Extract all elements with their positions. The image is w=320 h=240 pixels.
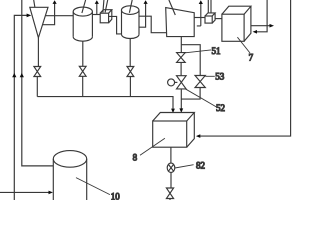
wire valve V1 to manifold — [36, 77, 38, 97]
tank 10 (large cylinder) — [53, 159, 86, 200]
wire tank T1 bottom pipe — [82, 41, 84, 67]
wire leader line on tank T1 top — [82, 0, 86, 13]
wire manifold to reactor 8 with down arrow — [37, 97, 173, 110]
svg-text:10: 10 — [111, 191, 121, 200]
wire valve 51 to valve 52 — [180, 62, 182, 75]
svg-text:82: 82 — [196, 161, 205, 171]
wire leader for label 7 — [237, 37, 250, 53]
tank T2 (cylinder) — [122, 10, 140, 34]
small box B2 (pump before condenser 7) — [205, 16, 212, 23]
arrowhead up on line A — [12, 73, 16, 77]
wire tank T1 outlet right — [92, 14, 100, 16]
reactor 8 (3D box) — [153, 121, 187, 147]
wire leader for label 52 — [185, 89, 217, 107]
wire valve 52 down to reactor 8 with down arrow — [180, 89, 182, 109]
wire tank T2 vent with up arrow — [139, 3, 145, 27]
wire twin vertical pipes into box B2 — [208, 0, 211, 14]
wire valve 53 down and left into valve-52 pipe — [181, 88, 200, 100]
wire right-side line into reactor 8 with left arrow — [200, 0, 291, 136]
wire separator vent with up arrow — [197, 3, 201, 26]
wire cyclone outlet to tank T1 — [46, 15, 74, 17]
arrowhead up on line B — [20, 73, 24, 77]
wire return line into condenser 7 with left arrow — [257, 0, 268, 32]
wire separator right outlet to box B2 — [194, 17, 205, 19]
tank T1 (cylinder) — [73, 12, 92, 37]
wire leader for label 53 — [205, 75, 215, 77]
wire condenser 7 outlet with right arrow — [251, 25, 270, 27]
actuator circle of valve 52 — [168, 79, 175, 86]
wire box B2 to condenser 7 — [215, 18, 222, 20]
valve 51 — [177, 53, 186, 63]
bottom drain valve — [166, 188, 173, 199]
wire reactor 8 bottom pipe — [170, 147, 172, 163]
svg-text:51: 51 — [212, 46, 221, 56]
wire separator bottom pipe — [180, 37, 182, 53]
wire valve V3 to manifold — [129, 77, 131, 97]
wire leader for label 51 — [185, 50, 211, 53]
wire tank T2 right outlet step pipe to separator — [139, 16, 166, 33]
valve V3 — [127, 67, 134, 77]
wire feed line B (left vertical to tank 10) — [22, 0, 54, 166]
pump 82 (circle with X) — [167, 163, 175, 172]
wire leader line into separator top — [169, 0, 175, 15]
arrowhead into cyclone inlet — [27, 14, 32, 18]
wire circle to valve 52 — [175, 81, 178, 83]
svg-text:8: 8 — [133, 152, 138, 162]
wire pump 82 to bottom valve — [170, 173, 172, 188]
small box B1 (pump between tanks) — [100, 13, 108, 23]
cyclone funnel (inverted triangle) — [30, 7, 48, 38]
wire leader for label 10 — [76, 178, 110, 195]
valve V1 — [34, 67, 41, 77]
wire leader for label 8 — [140, 138, 165, 155]
wire cyclone vent with up arrow — [42, 3, 54, 24]
svg-text:53: 53 — [215, 72, 225, 82]
wire twin slanted pipes into box B1 top — [103, 0, 108, 12]
svg-text:52: 52 — [216, 103, 225, 113]
wire tank T2 bottom pipe — [129, 38, 131, 66]
wire inlet line into cyclone top — [34, 0, 35, 7]
wire feed line A (left vertical with bend to cyclone inlet) — [14, 15, 27, 200]
valve 53 — [195, 76, 205, 88]
separator vessel (trapezoid) — [166, 8, 195, 37]
wire leader line on tank T2 top — [129, 0, 132, 13]
wire branch pipe to valve 53 — [181, 45, 200, 76]
wire vent with up arrow between T1 and box B1 — [96, 3, 98, 14]
wire leader for label 82 — [175, 165, 194, 168]
wire cyclone apex down pipe — [37, 38, 39, 67]
condenser 7 (3D box) — [222, 14, 244, 41]
control valve 52 (bowtie with actuator circle) — [177, 76, 187, 89]
wire box B1 outlet step pipe to tank T2 — [109, 16, 122, 34]
wire inlet arrow into tank 10 — [0, 191, 49, 193]
svg-text:7: 7 — [249, 52, 254, 62]
valve V2 — [79, 66, 86, 76]
wire valve V2 to manifold — [82, 76, 84, 96]
